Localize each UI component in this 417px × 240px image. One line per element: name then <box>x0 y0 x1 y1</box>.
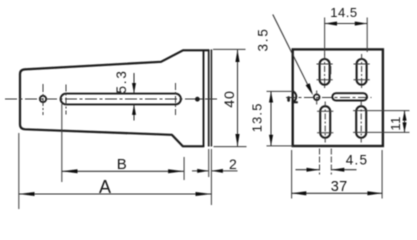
svg-text:3.5: 3.5 <box>255 27 270 51</box>
bottom-right slot centerline <box>360 102 362 143</box>
dimension 14.5 <box>325 5 368 55</box>
dimension B extension right (shoulder) <box>183 157 185 180</box>
middle horizontal slot <box>332 93 367 100</box>
dimension 2 (flange thickness) <box>192 149 238 205</box>
top-right slot arc ticks <box>354 63 370 65</box>
leader 3.5 <box>255 15 313 96</box>
top-right slot <box>357 59 367 85</box>
bottom-right slot <box>356 106 366 138</box>
bottom-left slot <box>320 106 330 138</box>
svg-text:11: 11 <box>388 116 403 131</box>
right view plate outline <box>293 49 383 146</box>
svg-text:13.5: 13.5 <box>250 102 265 132</box>
slot left arc centerline <box>65 85 67 115</box>
slot right arc centerline <box>175 83 177 115</box>
svg-text:37: 37 <box>331 179 348 195</box>
svg-text:5.3: 5.3 <box>114 69 129 93</box>
small hole vertical tick <box>316 91 318 105</box>
web-to-flange joint line <box>203 50 205 146</box>
top-right slot centerline <box>361 54 363 90</box>
svg-text:A: A <box>99 177 111 197</box>
top-left slot centerline <box>324 54 326 90</box>
bottom-left slot centerline <box>324 102 326 143</box>
hole vertical centerline <box>42 84 44 115</box>
svg-text:B: B <box>117 156 127 173</box>
dimension B <box>62 156 184 174</box>
dimension 13.5 <box>250 91 294 145</box>
right view horizontal centerline <box>286 97 372 99</box>
svg-text:2: 2 <box>229 156 237 172</box>
scan artifact near top-left slot <box>329 66 331 74</box>
small hole 3.5 (right view) <box>314 94 320 100</box>
slot (left view) <box>61 94 181 105</box>
hole (left view) <box>40 96 46 102</box>
left view outline (tapered bracket body) <box>20 50 209 146</box>
dimension 11 <box>388 111 407 133</box>
dimension 4.5 <box>296 149 369 175</box>
dimension 5.3 (slot width) <box>114 69 136 120</box>
dimension A <box>19 177 212 197</box>
bottom-left slot arc ticks <box>317 110 333 112</box>
dimension B extension left (slot start) <box>61 104 63 182</box>
flange left face (side view) <box>208 49 210 146</box>
top-left slot <box>320 59 330 85</box>
notch (keyhole slot on left edge) <box>292 91 298 102</box>
dimension A extension left <box>18 133 20 209</box>
flange right face (side view) <box>210 49 212 146</box>
svg-text:14.5: 14.5 <box>330 5 358 20</box>
dimension 40 (flange height, side view) <box>213 49 247 146</box>
dimension 37 <box>292 150 383 199</box>
main horizontal centerline (left view) <box>5 98 218 100</box>
svg-text:4.5: 4.5 <box>346 153 368 168</box>
bottom-right slot arc ticks <box>353 110 409 112</box>
top-left slot arc ticks <box>317 63 333 65</box>
dot on centerline at flange <box>195 97 200 102</box>
svg-text:40: 40 <box>222 90 238 108</box>
